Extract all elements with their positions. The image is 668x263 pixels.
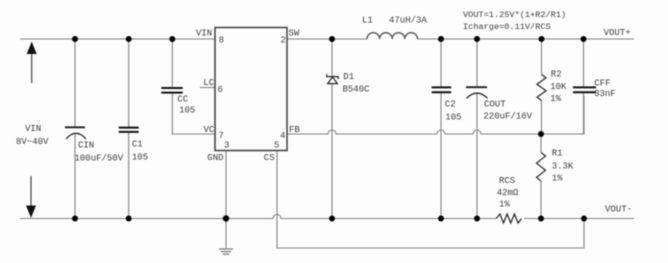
svg-text:VOUT=1.25V*(1+R2/R1): VOUT=1.25V*(1+R2/R1) bbox=[463, 10, 566, 20]
svg-text:2: 2 bbox=[281, 36, 286, 46]
svg-text:CC: CC bbox=[177, 95, 188, 105]
svg-text:CIN: CIN bbox=[78, 141, 94, 151]
svg-text:SW: SW bbox=[289, 29, 300, 39]
svg-text:3.3K: 3.3K bbox=[552, 162, 574, 172]
svg-text:6: 6 bbox=[218, 85, 223, 95]
svg-text:COUT: COUT bbox=[484, 100, 506, 110]
svg-text:CS: CS bbox=[264, 153, 275, 163]
svg-text:B540C: B540C bbox=[343, 85, 371, 95]
svg-text:GND: GND bbox=[207, 153, 223, 163]
svg-text:VOUT+: VOUT+ bbox=[604, 28, 631, 38]
svg-text:1%: 1% bbox=[499, 199, 510, 209]
svg-text:FB: FB bbox=[289, 125, 300, 135]
svg-text:8: 8 bbox=[219, 36, 224, 46]
svg-text:220uF/16V: 220uF/16V bbox=[483, 112, 532, 122]
svg-text:105: 105 bbox=[445, 113, 461, 123]
svg-text:VOUT-: VOUT- bbox=[605, 205, 632, 215]
svg-text:42mΩ: 42mΩ bbox=[497, 188, 519, 198]
svg-text:5: 5 bbox=[274, 140, 279, 150]
svg-text:L1 47uH/3A: L1 47uH/3A bbox=[362, 16, 427, 26]
svg-text:CFF: CFF bbox=[594, 78, 610, 88]
svg-text:VIN: VIN bbox=[196, 29, 212, 39]
svg-text:VC: VC bbox=[204, 125, 215, 135]
svg-text:33nF: 33nF bbox=[594, 89, 616, 99]
svg-text:10K: 10K bbox=[550, 82, 567, 92]
svg-text:D1: D1 bbox=[343, 72, 354, 82]
svg-text:R2: R2 bbox=[551, 70, 562, 80]
svg-text:100uF/50V: 100uF/50V bbox=[75, 154, 124, 164]
svg-text:4: 4 bbox=[280, 131, 285, 141]
svg-text:1%: 1% bbox=[552, 174, 563, 184]
svg-text:1%: 1% bbox=[550, 94, 561, 104]
svg-text:8V~40V: 8V~40V bbox=[16, 137, 49, 147]
svg-text:R1: R1 bbox=[552, 149, 563, 159]
svg-text:C1: C1 bbox=[132, 140, 143, 150]
svg-text:3: 3 bbox=[224, 140, 229, 150]
svg-text:C2: C2 bbox=[445, 100, 456, 110]
svg-text:Icharge=0.11V/RCS: Icharge=0.11V/RCS bbox=[463, 22, 551, 32]
svg-text:VIN: VIN bbox=[25, 124, 41, 134]
svg-text:105: 105 bbox=[179, 106, 195, 116]
svg-text:105: 105 bbox=[132, 153, 148, 163]
svg-text:RCS: RCS bbox=[499, 176, 515, 186]
svg-text:LC: LC bbox=[203, 78, 214, 88]
